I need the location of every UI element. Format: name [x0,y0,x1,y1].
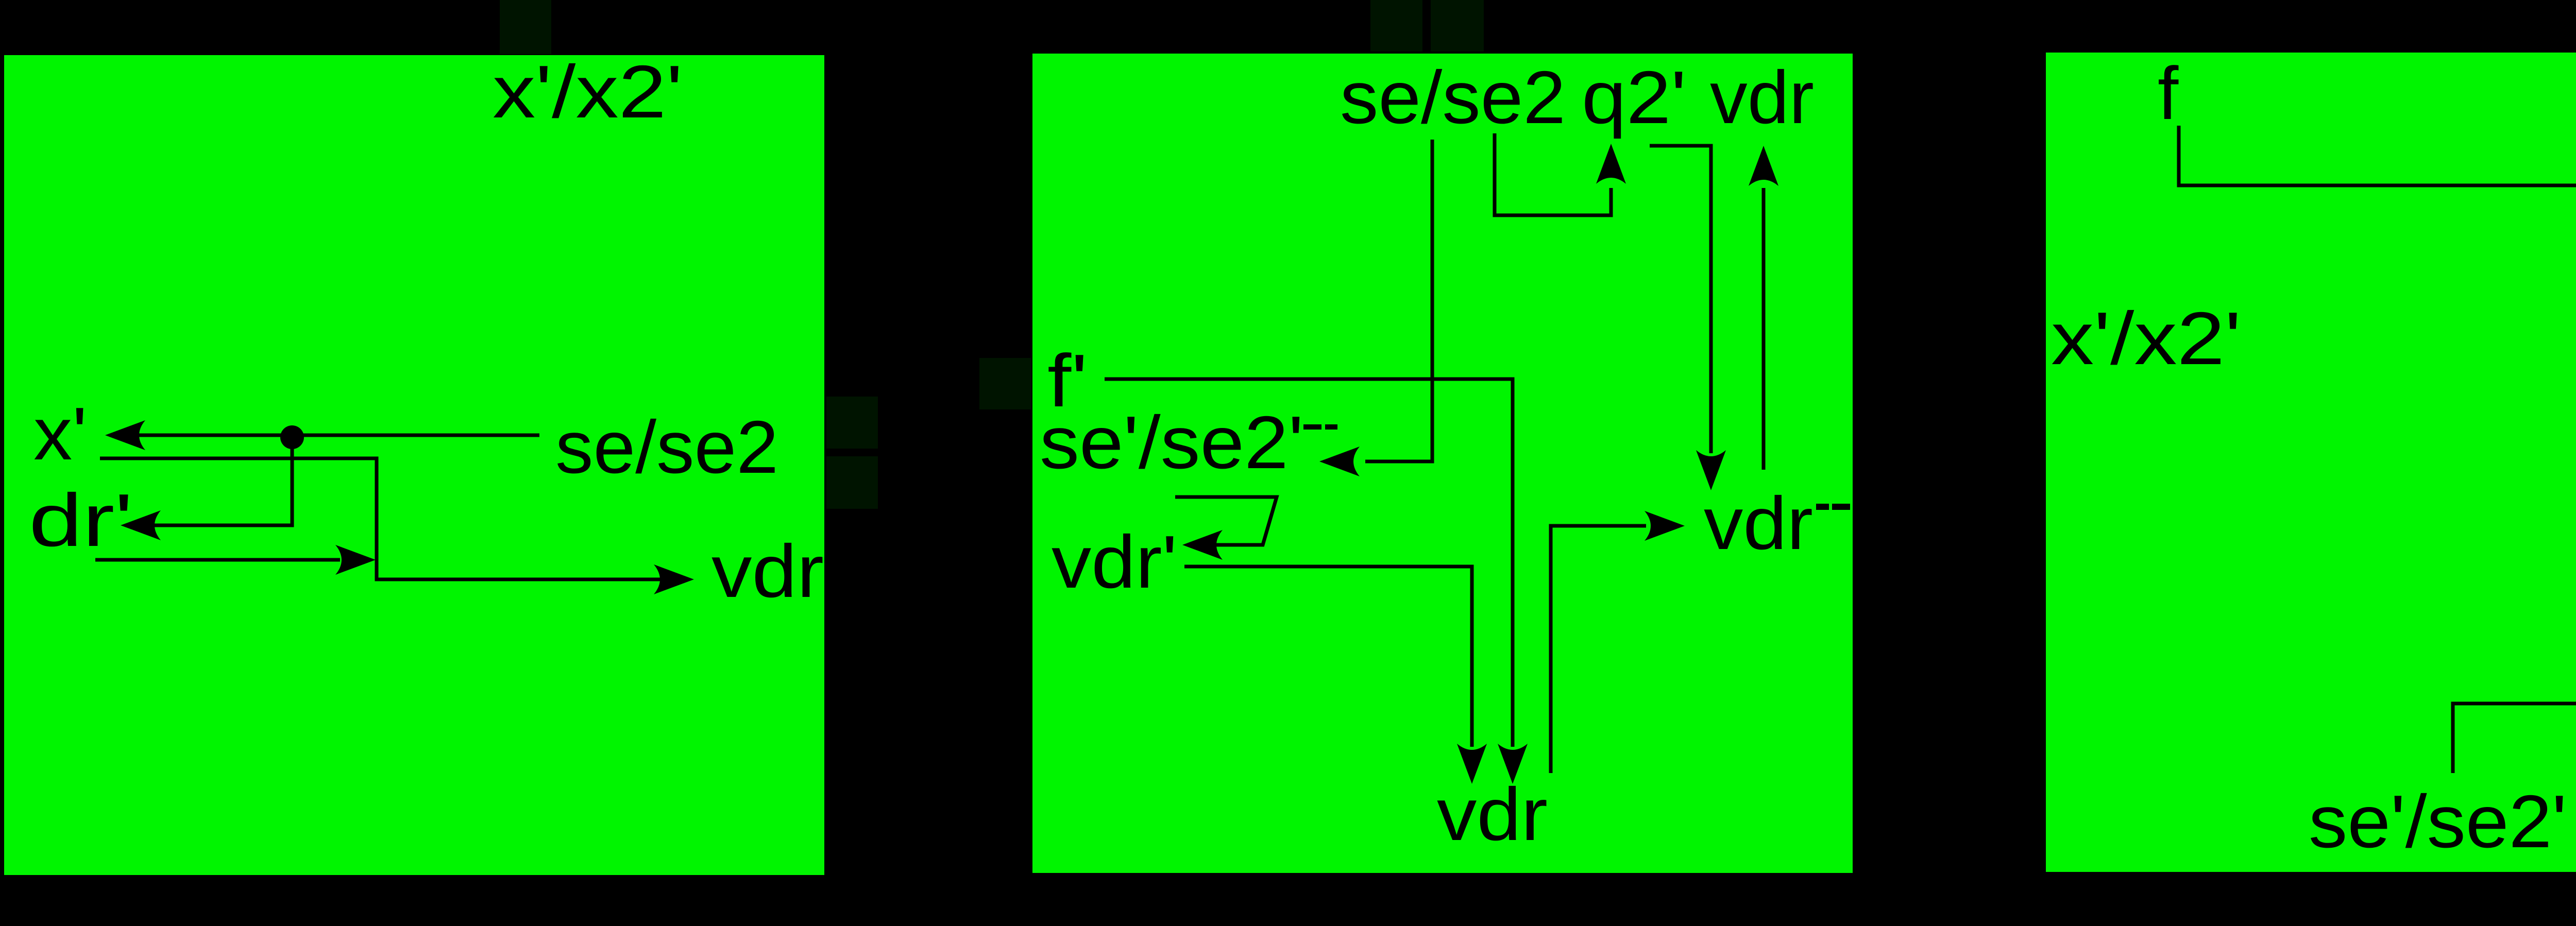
svg-text:q2': q2' [1582,56,1686,139]
svg-text:x'/x2': x'/x2' [2051,297,2241,380]
svg-text:vdr: vdr [1710,56,1814,139]
P2 arrowhead into vdr top [1749,146,1778,186]
svg-text:dr': dr' [29,478,133,562]
P2 wire se/se2 down to se'/se2' [1365,140,1432,461]
compression artifact patch gap right [979,358,1031,409]
svg-text:vdr: vdr [1437,773,1548,856]
svg-text:x': x' [33,392,87,475]
P2 arrowhead into se'/se2' [1319,447,1360,476]
svg-text:f: f [2158,52,2179,135]
P2 arrowhead into vdr-- [1645,511,1685,541]
state panel 1 background [4,55,824,875]
P2 superscript dash 1 after se'/se2' [1303,424,1321,430]
svg-text:vdr: vdr [711,529,824,613]
svg-text:se'/se2': se'/se2' [2309,780,2567,863]
P2 wire vdr' down to vdr bottom [1184,567,1472,747]
P1 arrowhead into x' [105,420,145,450]
P1 arrowhead into dr' [121,510,161,540]
state panel 2 background [1032,54,1853,873]
svg-text:x'/x2': x'/x2' [493,50,683,133]
P2 superscript dash 2 after vdr-- [1832,504,1850,510]
svg-text:vdr': vdr' [1052,520,1177,604]
compression artifact patch top left [500,0,551,54]
P1 junction dot [280,425,304,449]
P2 superscript dash 1 after vdr-- [1816,504,1829,510]
P2 arrowhead into vdr' loop [1182,530,1223,560]
P1 arrowhead into vertical [335,545,376,575]
svg-text:se/se2: se/se2 [1340,56,1566,139]
P2 arrowhead into vdr bottom from f' [1498,744,1528,784]
P3 wire f to q2' [2179,126,2576,188]
compression artifact patch gap left 2 [826,456,878,509]
P1 wire x' underline to vdr [100,458,665,579]
P2 arrowhead into vdr bottom from vdr' [1457,744,1487,784]
P2 arrowhead into vdr-- from q2' [1696,450,1726,490]
svg-text:se/se2: se/se2 [555,405,778,489]
P3 wire se'/se2' to vdr' [2453,704,2576,773]
P1 wire se/se2 to x' [139,434,539,437]
P2 wire vdr-- up to vdr [1762,188,1766,470]
state panel 3 background [2046,53,2576,872]
P2 wire vdr' self loop [1175,497,1277,545]
compression artifact patch top middle 1 [1370,0,1422,52]
P1 arrowhead into vdr [654,564,694,594]
compression artifact patch top middle 2 [1431,0,1484,52]
P2 wire f' down to vdr bottom [1105,379,1513,747]
P2 wire se/se2 bracket to q2' [1495,133,1611,215]
svg-text:vdr: vdr [1704,482,1813,565]
P2 wire up to vdr-- [1551,526,1646,773]
svg-text:se'/se2': se'/se2' [1040,401,1303,484]
P2 wire q2' down [1650,146,1711,453]
P2 superscript dash 2 after se'/se2' [1325,424,1337,430]
compression artifact patch gap left 1 [826,397,878,449]
P2 arrowhead into q2' top [1596,144,1626,184]
P1 wire dr' row to junction [95,558,340,562]
P1 wire dot to dr' [155,437,292,525]
